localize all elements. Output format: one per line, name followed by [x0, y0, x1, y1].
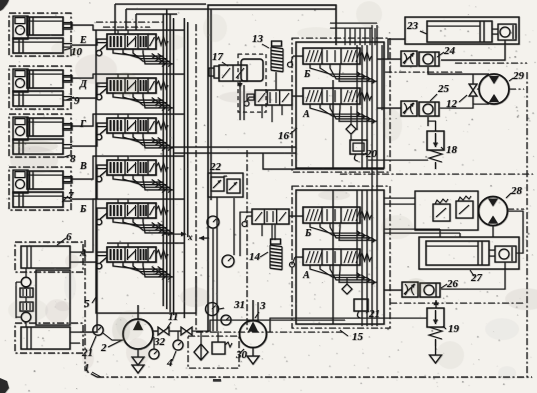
label Б 16: [303, 69, 311, 80]
lever P16: [244, 97, 255, 106]
wire top ports valve Г: [118, 114, 128, 118]
wire bus right v4: [371, 25, 373, 240]
wire 14 up: [274, 224, 276, 240]
label А 16: [302, 109, 310, 120]
wire bus vertical v7: [210, 9, 212, 200]
cylinder group C10: [9, 13, 83, 58]
wire pump3 down: [252, 348, 254, 356]
wire gauge21b: [103, 333, 123, 340]
wire bus right v3: [366, 45, 368, 168]
lever P15: [242, 216, 252, 227]
wire motor29 left: [477, 88, 479, 90]
wire gauge 4: [177, 331, 179, 340]
valve А (4/3 directional): [96, 247, 168, 269]
relief valve 19: [427, 308, 460, 346]
pump 3: [240, 300, 267, 348]
wire bus vertical v5: [183, 18, 185, 318]
leader line label 20: [363, 153, 366, 155]
wire bus vertical v1: [162, 14, 164, 306]
wire fan below valve В: [113, 175, 174, 192]
label А: [79, 248, 87, 259]
leader line label 30: [240, 349, 244, 353]
central box dashdot left: [195, 24, 197, 332]
leader line label 6: [57, 238, 66, 245]
wire bus right15 v5: [376, 200, 378, 326]
tank below pump2 a: [132, 357, 144, 365]
wire interbox jog: [263, 153, 384, 169]
wire bus right15 v2: [361, 190, 363, 326]
leader line label 21b: [90, 336, 96, 350]
label Б 15: [304, 228, 312, 239]
boundary dashdot top right b: [455, 63, 527, 89]
wire bus drop into block16: [354, 28, 356, 45]
wire bus to brake h2: [384, 203, 415, 205]
boundary dashdot top right: [385, 71, 463, 73]
relief valve 18: [427, 131, 458, 169]
wire top drop c: [135, 14, 137, 30]
wire bus to box16 h1: [170, 146, 296, 148]
wire 24 left: [377, 58, 401, 60]
gauge G-b: [222, 255, 234, 267]
wire cyl23 left: [388, 39, 405, 59]
wire 12 top: [472, 74, 474, 84]
leader line label 26: [441, 284, 447, 288]
wire pump2 to valves 11: [153, 330, 158, 332]
boundary dashdot left: [84, 240, 86, 370]
box 15 solid: [296, 190, 384, 324]
wire fan below valve А 15: [310, 265, 377, 285]
valve 21c: [354, 299, 380, 320]
wire 22 down: [217, 197, 234, 331]
boundary dashdot bottom: [97, 376, 532, 378]
valve А (block15): [303, 249, 372, 265]
label В: [79, 161, 87, 172]
wire fan below valve Б 16: [310, 64, 377, 84]
central box solid: [208, 5, 336, 332]
leader line label 18: [441, 147, 444, 150]
cylinder group C6: [15, 231, 83, 353]
leader line label 25: [430, 94, 437, 101]
leader line label 2: [108, 340, 122, 347]
wire cyl27 top h1: [384, 229, 440, 237]
label А 15: [302, 270, 310, 281]
wire cylinder group to valve Д: [72, 74, 184, 98]
box 16 solid: [296, 42, 384, 168]
wire drain 20 to 18: [368, 159, 428, 161]
leader line label 9: [66, 97, 74, 100]
wire 13 down: [275, 72, 277, 90]
wire bus drop into block16: [369, 28, 371, 45]
wire bus right v6: [381, 45, 383, 110]
gauge 32: [149, 336, 166, 359]
wire 12 bottom: [473, 96, 489, 104]
leader line label 23: [420, 31, 427, 34]
wire top drop a: [114, 4, 116, 34]
boundary dashdot mid right: [340, 173, 533, 175]
pilot valve P16: [247, 90, 292, 105]
central box dashdot bottom: [196, 331, 345, 333]
wire P16 stubs: [262, 105, 282, 122]
wire bus vertical v2: [166, 9, 168, 309]
wire bus right top h: [330, 23, 377, 28]
lever valve Б 16: [288, 56, 304, 67]
leader line label 13: [262, 44, 269, 48]
wire bus right15 v1: [356, 190, 358, 280]
wire 19 bottom: [435, 346, 437, 355]
wire bus vertical v3: [169, 14, 171, 312]
scan artifact top-left corner: [0, 0, 9, 11]
pilot accumulator 13: [252, 33, 283, 72]
wire pump2 down: [137, 349, 139, 357]
valve Е (4/3 directional): [96, 34, 168, 56]
wire cyl27 top h2: [384, 233, 460, 237]
leader line label 24: [437, 52, 444, 57]
leader line label 21c: [366, 311, 369, 313]
valve 12 (shutoff): [446, 84, 477, 110]
leader line label 27: [470, 270, 474, 276]
wire 26 left: [384, 233, 402, 290]
wire bus drop into block16: [364, 28, 366, 45]
wire top ports valve Б: [118, 199, 128, 203]
leader line label 19: [443, 326, 446, 329]
pilot valve P15: [252, 209, 289, 224]
wire bus drop into block16: [359, 28, 361, 45]
lever valve А 15: [290, 257, 304, 267]
wire P15 to B15: [289, 215, 303, 217]
wire 19 top arrow: [434, 300, 439, 308]
wire group6 to valve Б: [80, 199, 184, 262]
valve Д (4/3 directional): [96, 78, 168, 100]
solid box near 17: [241, 59, 263, 81]
valve Б (block15): [303, 207, 372, 223]
boundary dashdot pilot: [246, 150, 248, 332]
label Г: [79, 119, 87, 130]
wire fan below valve А 16: [310, 104, 377, 124]
boundary diagonal bottom left: [86, 371, 97, 377]
wire cylinder group to valve Е: [72, 25, 184, 45]
wire 18 top: [435, 126, 437, 131]
dashed box near 17: [238, 54, 266, 112]
leader line label 15: [340, 330, 348, 336]
boundary dashdot lower right: [390, 302, 524, 304]
leader line label 16: [290, 128, 297, 134]
valve 11b (shutoff): [181, 327, 192, 335]
leader line label 31: [219, 308, 224, 309]
wire top ports valve Е: [118, 30, 128, 34]
cylinder 23: [405, 17, 519, 44]
wire pump2 up: [137, 305, 139, 319]
leader line label 17: [222, 62, 228, 66]
label Е: [79, 35, 87, 46]
wire P16 to A16: [292, 95, 303, 97]
gauge G-a: [207, 216, 219, 228]
cylinder group C8: [9, 114, 76, 165]
boundary dashdot top b: [103, 26, 150, 28]
gauge G-c: [221, 315, 231, 325]
leader line label 10: [64, 48, 71, 50]
leader line label 11: [167, 322, 171, 328]
valve Г (4/3 directional): [96, 118, 168, 140]
valve В (4/3 directional): [96, 160, 168, 182]
label Д: [79, 79, 88, 90]
wire bus vertical v4: [173, 18, 175, 315]
wire fan below valve Д: [113, 93, 174, 110]
wire between 11: [169, 330, 181, 332]
cylinder group C7: [9, 167, 74, 210]
valve Б (block16): [303, 48, 372, 64]
wire fan below valve Г: [113, 133, 174, 150]
wire top bus h3: [136, 13, 177, 15]
wire bus drop into block16: [349, 28, 351, 45]
hydraulic motor 28: [479, 185, 523, 226]
boundary dashdot right edge: [526, 72, 528, 377]
leader line label 12: [459, 95, 467, 102]
wire P15 stubs: [262, 224, 272, 240]
brake block 28: [415, 191, 478, 230]
wire bus right v1: [356, 45, 358, 130]
pump 2: [100, 319, 153, 354]
wire cylinder group to valve В: [72, 156, 184, 199]
wire fan below valve Б: [113, 218, 174, 235]
tank below 19: [430, 355, 442, 363]
wire 25 down: [427, 117, 429, 126]
wire top ports valve А: [118, 243, 128, 247]
node x arrow left: [199, 236, 209, 241]
wire motor28 right: [508, 211, 523, 253]
label 1: [84, 362, 90, 374]
node x arrow right: [163, 232, 193, 242]
leader line label 14: [260, 252, 268, 257]
wire bus to brake h1: [384, 197, 415, 199]
wire top bus h1: [115, 3, 206, 5]
gauge 31: [206, 299, 246, 316]
wire gauge G-a: [212, 228, 214, 331]
box 15 inner wall: [332, 190, 334, 324]
wire fan below valve Е: [113, 49, 174, 66]
gauge 21b: [81, 325, 103, 359]
leader line label 28: [506, 193, 511, 198]
leader line label 3: [255, 312, 259, 318]
wire top ports valve В: [118, 156, 128, 160]
wire 19 left: [270, 318, 427, 332]
wire 26 right: [441, 262, 505, 289]
valve block 22: [208, 161, 243, 197]
wire cylinder group to valve Г: [72, 114, 184, 146]
hydraulic motor 29: [479, 70, 525, 104]
wire 11 right: [192, 320, 345, 331]
box 16 dashdot: [292, 38, 390, 172]
label 16: [278, 130, 290, 142]
wire motor28 bottom: [492, 226, 494, 237]
wire top bus h2: [126, 8, 336, 10]
brake valve b: [456, 196, 473, 218]
wire cyl23 right down: [441, 40, 505, 60]
cylinder group C9: [9, 66, 80, 109]
check valve diamond 15: [342, 278, 352, 294]
wire bus drop into block16: [344, 28, 346, 45]
wire bus right v5: [376, 25, 378, 250]
wire 24 down: [428, 67, 489, 74]
brake valve a: [433, 199, 450, 221]
filter unit 30: [188, 331, 248, 368]
valve 11a (shutoff): [158, 327, 169, 335]
wire pump3 up: [253, 300, 258, 321]
wire 25 left: [377, 107, 401, 109]
pilot accumulator 14: [249, 239, 282, 270]
leader line label 7: [62, 196, 68, 202]
leader line label 1: [92, 372, 101, 377]
tank below pump2 b: [132, 365, 144, 373]
wire gauge 32: [153, 337, 155, 349]
wire 25 to motor loop: [440, 96, 473, 108]
box 16 inner wall: [332, 80, 334, 168]
wire bus right15 v3: [366, 190, 368, 326]
valve 26 (throttle-check): [402, 278, 459, 297]
box 5 outline: [84, 30, 196, 313]
wire bus right15 v4: [371, 200, 373, 326]
wire fan below valve А: [113, 262, 174, 279]
wire 18 to 25: [428, 121, 436, 126]
label 15: [352, 331, 364, 343]
wire bus drop into block16: [374, 28, 376, 45]
leader line label 8: [64, 155, 70, 157]
wire bus vertical v6: [187, 22, 189, 237]
scan artifact bottom mark: [213, 379, 221, 382]
leader line label 29: [509, 78, 513, 81]
boundary dashdot top a: [96, 21, 163, 23]
valve 17: [209, 51, 247, 81]
wire bus right v2: [361, 45, 363, 168]
wire bus to box16 h2: [174, 152, 297, 154]
wire P15 left drop: [240, 212, 252, 256]
cylinder 27: [419, 237, 519, 284]
box 15 dashdot: [292, 186, 390, 328]
valve Б (4/3 directional): [96, 203, 168, 225]
scan artifact bottom-left corner: [0, 378, 9, 393]
wire top drop b: [125, 9, 127, 30]
gauge 4: [166, 340, 183, 369]
label Б: [79, 204, 87, 215]
check valve diamond 16: [346, 106, 356, 140]
valve 25 (throttle-check): [401, 83, 450, 116]
leader line label 4: [172, 351, 176, 361]
valve А (block16): [303, 88, 372, 104]
wire 17 down: [238, 81, 245, 120]
label 11: [168, 311, 178, 323]
tank below pump3: [247, 356, 259, 364]
wire top ports valve Д: [118, 74, 128, 78]
wire fan below valve Б 15: [310, 223, 377, 243]
leader line label 5: [92, 297, 96, 303]
boundary dashdot motor28 right: [507, 208, 524, 210]
wire group6 to valve А: [80, 252, 107, 332]
valve 24 (throttle-check): [401, 45, 456, 66]
valve 20: [350, 140, 378, 161]
